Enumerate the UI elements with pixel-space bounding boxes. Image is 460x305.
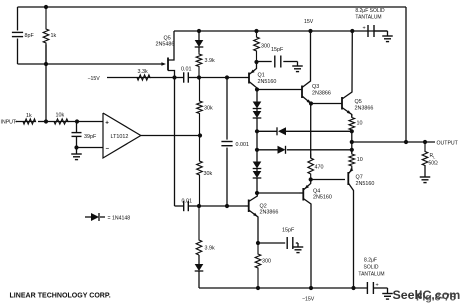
node op-amp output at 30k chain [198, 133, 202, 137]
wire 15V supply rail [174, 30, 388, 32]
resistor 10 lower [349, 150, 363, 168]
transistor Q3 2N3866 [302, 31, 331, 104]
node 0.001 top junction [225, 75, 229, 79]
svg-text:+: + [363, 25, 366, 31]
svg-text:30k: 30k [204, 171, 213, 177]
ground at RL [420, 166, 431, 183]
wire 3.3k to JFET source node [150, 77, 175, 79]
wire coupling vertical 0.01 to 0.01 [174, 78, 176, 207]
svg-text:Q7: Q7 [356, 175, 363, 181]
wire minus input row [77, 147, 104, 149]
svg-text:Q5: Q5 [355, 99, 362, 105]
transistor Q5 2N5486 JFET [156, 31, 175, 78]
svg-text:–: – [106, 145, 110, 152]
svg-text:0.001: 0.001 [236, 142, 250, 148]
transistor Q5 2N3866 output [342, 31, 373, 117]
svg-text:0.01: 0.01 [182, 199, 193, 205]
svg-text:2N5486: 2N5486 [156, 41, 175, 47]
node Q2 emitter junction [256, 241, 260, 245]
wire summing vertical 1k to input node [45, 45, 47, 122]
node clamp lower at 10 [350, 148, 354, 152]
node output feedback junction [404, 140, 408, 144]
label OUTPUT [437, 140, 459, 146]
capacitor 15pF upper [257, 47, 298, 68]
node top rail at 1k [44, 5, 48, 9]
resistor RL 50 ohm [422, 142, 438, 166]
resistor 10 upper [349, 115, 363, 132]
transistor Q4 2N5160 [299, 180, 332, 289]
svg-text:8pF: 8pF [25, 33, 35, 39]
capacitor 0.001 [221, 78, 249, 207]
watermark SeekIC.com [393, 288, 460, 304]
wire 10k to op-amp node [68, 121, 103, 123]
ground at tantalum lower [382, 288, 393, 299]
wire feedback lower row to Q5 gate [18, 63, 164, 65]
diode D6 [253, 171, 262, 193]
svg-text:Q4: Q4 [313, 188, 320, 194]
node 15V rail at Q5 [350, 29, 354, 33]
capacitor 15pF lower [258, 228, 298, 249]
svg-text:15V: 15V [304, 19, 314, 25]
label -15V left [88, 76, 101, 82]
svg-text:Q1: Q1 [258, 73, 265, 79]
wire bottom rail left segment [199, 287, 367, 289]
resistor 470 [308, 154, 324, 180]
svg-text:1k: 1k [51, 33, 57, 39]
label INPUT [1, 120, 17, 126]
transistor Q1 2N5160 [245, 62, 276, 90]
svg-text:8.2μF: 8.2μF [364, 258, 377, 264]
ground below 39pF [71, 154, 82, 160]
capacitor 8.2uF solid tantalum upper [355, 8, 387, 37]
svg-text:39pF: 39pF [84, 134, 97, 140]
ground at 15pF upper [292, 62, 303, 72]
svg-text:Q3: Q3 [312, 84, 319, 90]
diode D2 bottom bias [195, 255, 204, 288]
wire vertical 8pF branch bottom [17, 39, 19, 65]
svg-text:= 1N4148: = 1N4148 [108, 215, 131, 221]
capacitor 8.2uF solid tantalum lower [358, 258, 387, 295]
svg-text:1k: 1k [26, 113, 32, 119]
wire Q1 collector to Q3 base [257, 89, 302, 91]
resistor 3.3k [107, 69, 150, 80]
node op-amp plus input [75, 119, 79, 123]
svg-text:TANTALUM: TANTALUM [358, 271, 384, 277]
node bottom rail at Q4 [309, 286, 313, 290]
label -15V bottom [302, 297, 315, 303]
capacitor 39pF [72, 122, 97, 148]
resistor 300 lower [255, 243, 271, 288]
svg-text:+: + [105, 120, 109, 127]
node 15V rail at Q3 [308, 29, 312, 33]
capacitor C 8pF [12, 32, 35, 39]
diode D7 clamp upper [257, 127, 352, 135]
svg-text:OUTPUT: OUTPUT [437, 140, 459, 146]
svg-text:LINEAR TECHNOLOGY CORP.: LINEAR TECHNOLOGY CORP. [10, 293, 111, 300]
resistor 3.9k upper [196, 52, 215, 78]
wire chain mid segment [256, 131, 258, 150]
wire 1k to node [38, 121, 46, 123]
diode D8 clamp lower [257, 146, 352, 154]
resistor 10k [46, 113, 68, 125]
svg-text:2N3866: 2N3866 [355, 105, 374, 111]
wire output row [352, 141, 435, 143]
node output at 10 resistors [350, 140, 354, 144]
svg-text:3.3k: 3.3k [138, 69, 148, 75]
label LINEAR TECHNOLOGY CORP [10, 293, 111, 300]
resistor 1k input [16, 113, 36, 124]
svg-text:Q2: Q2 [260, 204, 267, 210]
wire op-amp output [141, 135, 200, 137]
svg-text:50Ω: 50Ω [429, 160, 439, 166]
svg-text:15pF: 15pF [271, 47, 284, 53]
resistor 300 upper [254, 31, 270, 62]
svg-text:INPUT: INPUT [1, 120, 17, 126]
svg-text:3.9k: 3.9k [205, 246, 215, 252]
node Q1 emitter junction [254, 60, 258, 64]
svg-text:−15V: −15V [302, 297, 315, 303]
node input summing junction [44, 119, 48, 123]
node 15V rail at diode [197, 29, 201, 33]
svg-text:2N5160: 2N5160 [356, 181, 375, 187]
ground at tantalum upper [382, 31, 393, 42]
node clamp tap lower [255, 148, 259, 152]
transistor Q7 2N5160 [348, 168, 374, 289]
node bias chain upper at 0.01 [197, 75, 201, 79]
transistor Q2 2N3866 [245, 193, 278, 243]
svg-text:SOLID: SOLID [363, 264, 378, 270]
node 0.001 bottom junction [225, 204, 229, 208]
node feedback junction at 1k [44, 62, 48, 66]
node output at RL [423, 140, 427, 144]
wire Q3 emitter down to 470 [310, 104, 312, 159]
diode D1 top bias [195, 31, 204, 52]
node bias chain lower at 0.01 [197, 204, 201, 208]
svg-text:300: 300 [262, 259, 271, 265]
svg-text:10k: 10k [56, 113, 65, 119]
svg-text:0.01: 0.01 [181, 66, 192, 72]
wire top feedback rail [18, 6, 407, 8]
wire output node segment [351, 131, 353, 153]
svg-text:30k: 30k [204, 106, 213, 112]
svg-text:L: L [433, 156, 435, 160]
note diode 1N4148 [85, 213, 130, 221]
capacitor 0.01 upper [175, 66, 200, 82]
svg-text:2N5160: 2N5160 [258, 79, 277, 85]
diode D4 [253, 111, 262, 131]
svg-text:2N3866: 2N3866 [312, 90, 331, 96]
label 15V [304, 19, 314, 25]
node bottom rail at Q7 [351, 286, 355, 290]
node clamp tap upper [255, 129, 259, 133]
svg-text:10: 10 [357, 157, 363, 163]
svg-text:−15V: −15V [88, 76, 101, 82]
svg-text:300: 300 [261, 44, 270, 50]
wire vertical 8pF branch top [17, 7, 19, 31]
svg-text:TANTALUM: TANTALUM [355, 14, 381, 20]
op-amp U1 LT1012 [103, 113, 141, 158]
resistor 1k feedback [43, 7, 56, 64]
node driver lower junction [309, 177, 313, 181]
node Q1 collector junction [255, 87, 259, 91]
node bottom rail at 300 [256, 286, 260, 290]
wire minus node to ground [76, 148, 78, 155]
node Q3 emitter junction [309, 101, 313, 105]
capacitor 0.01 lower [175, 199, 200, 212]
node JFET source junction [172, 75, 176, 79]
ground at 15pF lower [293, 243, 304, 253]
node Q2 collector junction [255, 191, 259, 195]
svg-text:8.2μF SOLID: 8.2μF SOLID [355, 8, 385, 14]
svg-text:3.9k: 3.9k [205, 58, 215, 64]
diode D5 [253, 150, 262, 171]
wire base row Q2 [199, 205, 245, 207]
wire chain bottom to Q4 base [257, 192, 299, 194]
svg-text:10: 10 [357, 121, 363, 127]
svg-text:2N3866: 2N3866 [260, 210, 279, 216]
resistor 30k upper [197, 78, 213, 136]
wire input lead [16, 121, 18, 123]
node op-amp minus input [74, 145, 78, 149]
wire base row Q1 [199, 77, 245, 79]
wire to Q7 base [311, 179, 345, 181]
svg-text:LT1012: LT1012 [111, 134, 129, 140]
wire Q3 emitter to Q5 base [311, 103, 342, 105]
resistor 30k lower [197, 136, 213, 207]
node clamp upper at 10 [350, 129, 354, 133]
svg-text:Fig.8-75: Fig.8-75 [416, 292, 456, 304]
wire feedback vertical from top rail to output node [405, 7, 407, 142]
svg-text:2N5160: 2N5160 [313, 195, 332, 201]
resistor 3.9k lower [196, 206, 215, 255]
node 15V rail at 300 [254, 29, 258, 33]
diode D3 [253, 90, 262, 112]
svg-text:15pF: 15pF [282, 228, 295, 234]
svg-text:470: 470 [315, 165, 324, 171]
